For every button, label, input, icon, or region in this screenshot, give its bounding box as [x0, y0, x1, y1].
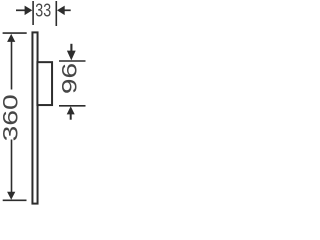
background	[0, 0, 87, 206]
dimension 96: lower stub line	[70, 114, 72, 120]
dimension 33: right extension bar	[55, 1, 57, 26]
dimension 33: left extension bar	[32, 1, 34, 25]
dimension 360: top extension line	[3, 32, 27, 34]
wall bracket outline	[37, 62, 52, 105]
dimension 360: bottom extension line	[3, 199, 27, 201]
svg-text:96: 96	[58, 63, 82, 94]
dimension 360: up arrow	[7, 34, 15, 42]
dimension 96: upper stub line	[70, 44, 72, 52]
panel side view outline	[32, 32, 37, 203]
dimension 33: right arrow	[57, 6, 65, 16]
dimension 33: left leader wire	[16, 9, 26, 11]
dimension 96: up arrow	[67, 106, 75, 114]
dimension 360: down arrow	[7, 192, 15, 200]
dimension 360: lower dimension line	[11, 140, 13, 194]
dimension 33: right leader wire	[64, 9, 71, 11]
dimension 33: left arrow	[25, 6, 33, 16]
svg-text:33: 33	[35, 1, 51, 21]
dimension 96: top extension line	[59, 60, 86, 62]
dimension 96: bottom extension line	[59, 105, 86, 107]
dimension 96: down arrow	[67, 51, 76, 61]
dimension 360: upper dimension line	[11, 41, 13, 90]
svg-text:360: 360	[0, 94, 23, 141]
